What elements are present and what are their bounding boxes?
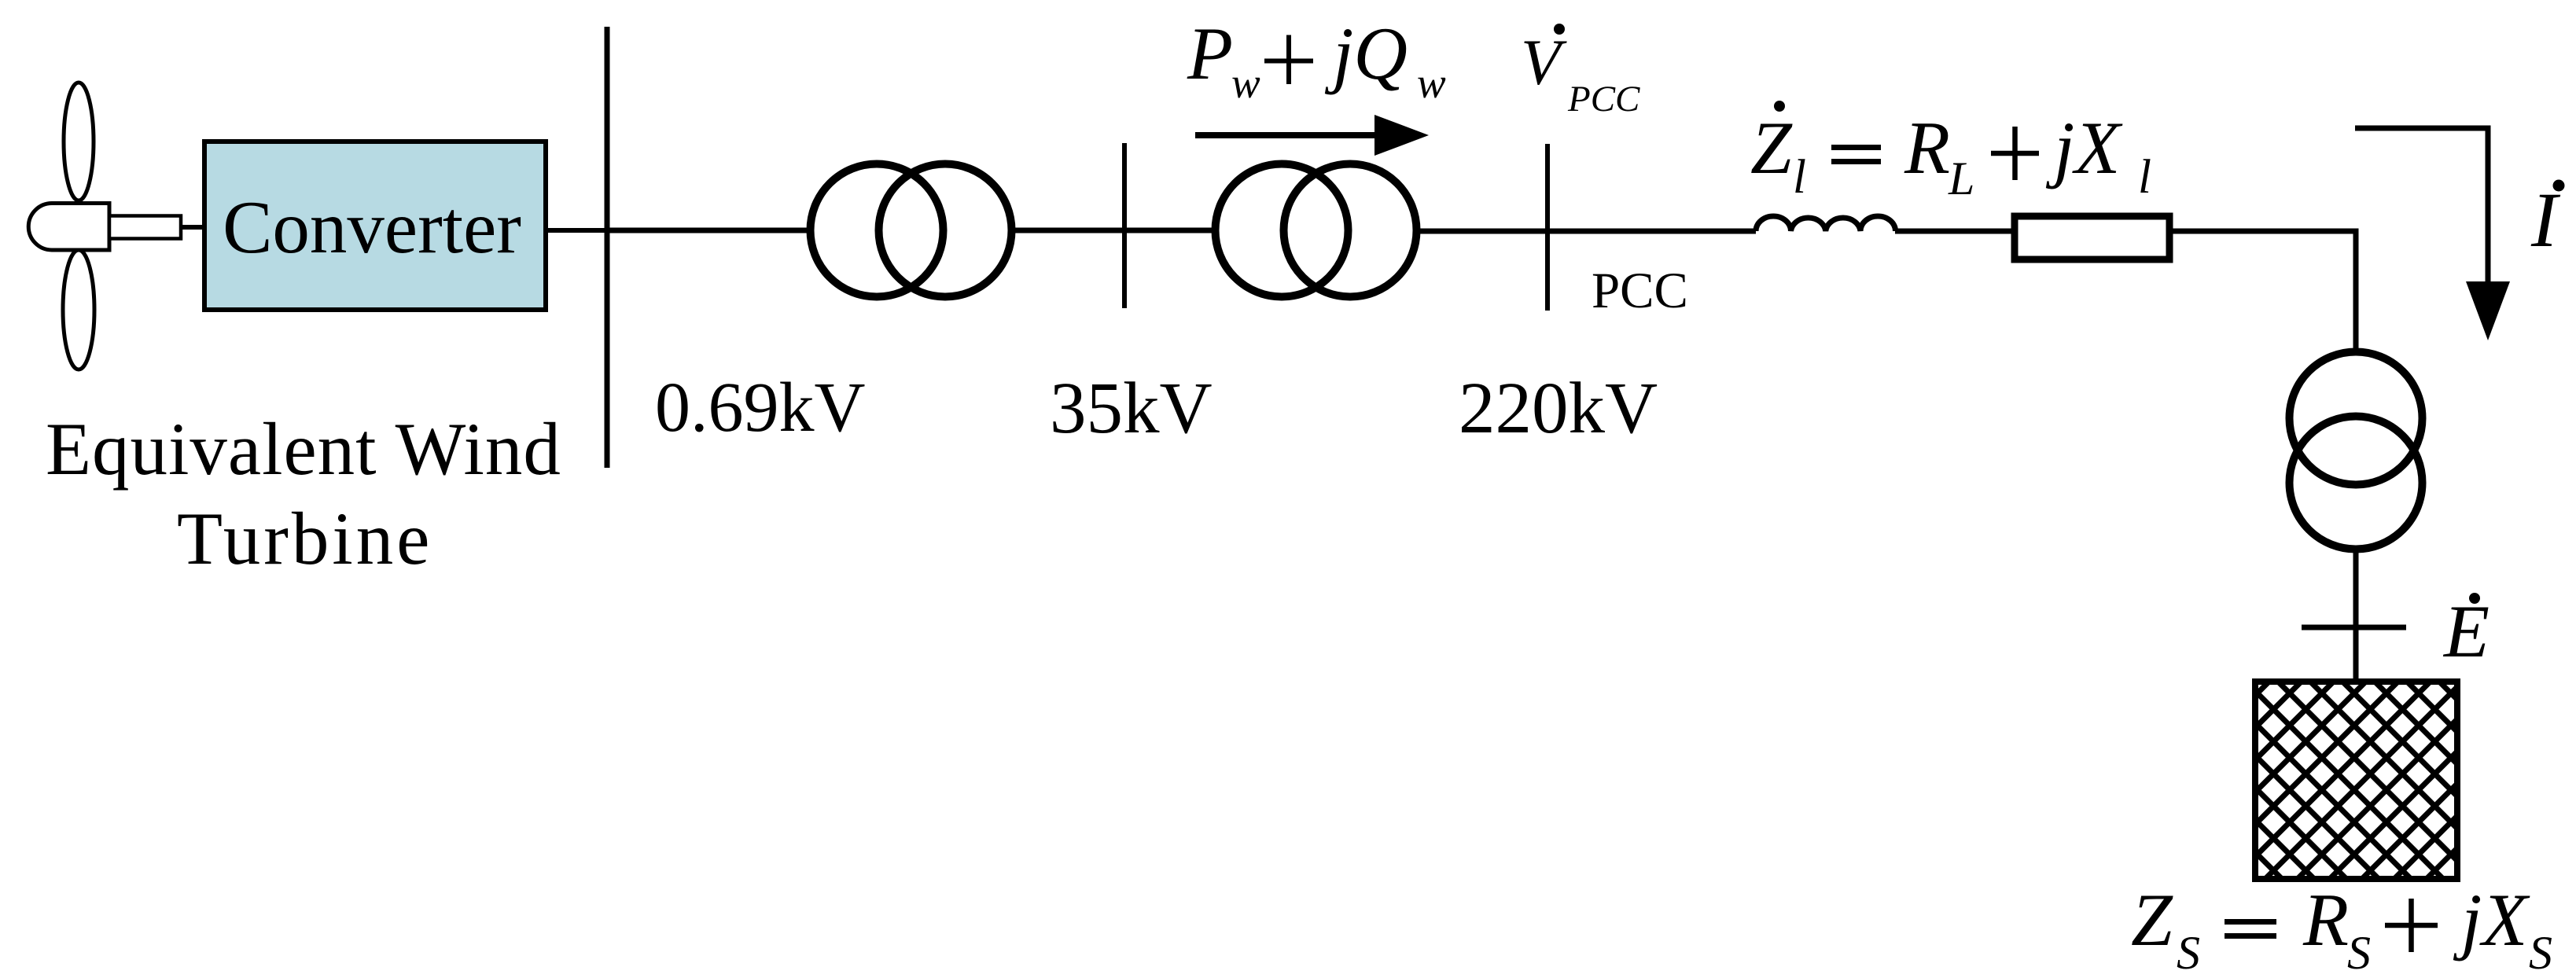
resistor RL <box>2015 216 2169 259</box>
svg-text:PCC: PCC <box>1567 79 1640 119</box>
wire T2 to PCC bus and line impedance <box>1418 229 1756 234</box>
svg-text:Converter: Converter <box>223 186 521 269</box>
svg-text:V: V <box>1521 26 1567 98</box>
svg-text:Z: Z <box>1750 106 1793 189</box>
wire resistor to corner <box>2169 229 2359 234</box>
svg-text:Equivalent Wind: Equivalent Wind <box>46 407 561 491</box>
svg-text:L: L <box>1948 153 1974 204</box>
wind turbine blade top <box>64 83 94 200</box>
source impedance block ZS (crosshatched) <box>2255 682 2457 879</box>
svg-text:R: R <box>2302 878 2349 961</box>
wire bus to transformer T1 <box>607 228 814 233</box>
svg-text:l: l <box>1793 151 1806 204</box>
power flow arrow Pw+jQw <box>1195 132 1378 138</box>
svg-text:jX: jX <box>2453 878 2530 961</box>
wind turbine blade bottom <box>63 250 94 370</box>
bus tick at E <box>2302 625 2406 631</box>
inductor Xl <box>1756 216 1896 231</box>
svg-text:Z: Z <box>2131 878 2173 961</box>
svg-text:w: w <box>1417 59 1446 107</box>
converter box <box>204 142 546 310</box>
wind turbine nacelle hub <box>28 204 109 251</box>
wire T1 to bus 35kV <box>1013 228 1124 233</box>
wire corner down to grid transformer <box>2353 231 2359 351</box>
svg-text:S: S <box>2347 927 2371 978</box>
wire converter to bus 0.69kV <box>546 228 607 233</box>
svg-text:R: R <box>1904 106 1950 189</box>
transformer T1 <box>811 164 944 297</box>
svg-text:E: E <box>2442 590 2490 673</box>
wire T3 to source <box>2353 550 2359 681</box>
bus PCC 220kV <box>1545 144 1550 311</box>
svg-text:jX: jX <box>2045 106 2123 189</box>
wire inductor to resistor <box>1895 229 2015 234</box>
svg-text:S: S <box>2177 927 2200 978</box>
current arrow I <box>2355 126 2491 131</box>
grid transformer T3 <box>2290 352 2423 485</box>
wire bus 35kV to transformer T2 <box>1124 228 1216 233</box>
bus 0.69kV <box>605 27 610 468</box>
svg-text:jQ: jQ <box>1324 12 1408 95</box>
svg-text:w: w <box>1231 59 1260 107</box>
svg-text:220kV: 220kV <box>1459 368 1658 449</box>
wire shaft to converter <box>180 225 203 230</box>
wind turbine shaft <box>109 216 181 239</box>
svg-text:0.69kV: 0.69kV <box>655 369 866 447</box>
svg-text:PCC: PCC <box>1592 263 1688 319</box>
svg-text:Turbine: Turbine <box>177 497 432 580</box>
svg-text:S: S <box>2529 927 2552 978</box>
svg-text:P: P <box>1187 12 1233 95</box>
bus 35kV <box>1122 143 1127 308</box>
transformer T2 <box>1216 164 1349 297</box>
svg-text:l: l <box>2138 151 2151 204</box>
svg-text:35kV: 35kV <box>1050 368 1213 449</box>
